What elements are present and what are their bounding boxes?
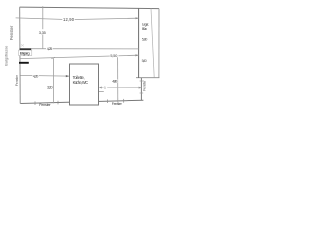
svg-text:Fenster: Fenster [15,74,19,86]
svg-text:Büro: Büro [142,27,147,31]
svg-text:Eingang: Eingang [20,51,30,56]
svg-text:Küche, WC: Küche, WC [73,80,89,85]
svg-text:Fenster: Fenster [112,102,123,106]
svg-text:5: 5 [104,86,106,90]
svg-text:4,25: 4,25 [47,47,53,51]
svg-text:Burgstrasse: Burgstrasse [4,46,8,66]
svg-text:5,50: 5,50 [110,54,117,58]
svg-text:4,20: 4,20 [33,74,39,78]
svg-text:3,35: 3,35 [39,30,46,35]
svg-text:Toilette,: Toilette, [73,75,85,80]
svg-text:4,80: 4,80 [112,80,117,84]
svg-text:3,20: 3,20 [47,86,53,90]
svg-text:Fenster: Fenster [39,103,51,107]
svg-text:Fenster: Fenster [9,25,14,40]
svg-text:12,90: 12,90 [63,17,75,22]
svg-text:5,40: 5,40 [142,59,147,63]
svg-text:5,80: 5,80 [142,37,148,41]
svg-text:Fenster: Fenster [142,79,146,90]
